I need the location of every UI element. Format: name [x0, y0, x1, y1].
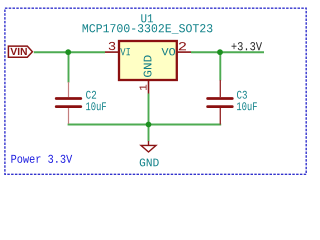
wire bottom rail: [68, 124, 222, 126]
C2 value 10uF: [86, 102, 106, 110]
C3 reference text: [237, 91, 247, 99]
capacitor C3 plates: [208, 99, 233, 107]
wire C2 branch vertical: [68, 52, 70, 82]
wire pin 2 to +3.3V: [191, 51, 264, 53]
wire IC GND pin to rail: [148, 94, 150, 125]
capacitor C2 bottom pin: [68, 108, 70, 124]
junction at GND rail: [146, 122, 152, 128]
U1 value MCP1700-3302E_SOT23: [83, 24, 213, 33]
pin 1 (GND) stub: [148, 81, 150, 94]
U1 reference designator: [141, 14, 153, 22]
C2 reference text: [86, 91, 96, 99]
GND net name text: [140, 158, 159, 166]
wire C3 branch vertical: [219, 52, 221, 80]
local label +3.3V: [232, 42, 263, 50]
pin name VI: [120, 48, 130, 55]
capacitor C2 top pin: [68, 82, 70, 97]
capacitor C3 bottom pin: [219, 108, 221, 125]
global label VIN text: [10, 48, 26, 55]
wire VIN to pin 3: [34, 51, 105, 53]
pin name GND (rotated): [144, 55, 152, 77]
GND symbol triangle: [141, 145, 156, 152]
pin name VO: [162, 48, 176, 55]
junction at VIN/C2: [65, 49, 71, 55]
regulator U1 body: [119, 41, 177, 80]
pin 2 (VO) stub: [177, 51, 192, 53]
sheet note Power 3.3V: [11, 155, 72, 163]
C3 value 10uF: [237, 102, 257, 110]
pin number 1 (rotated): [140, 85, 147, 90]
pin number 3: [109, 42, 116, 50]
junction at VO/C3: [217, 49, 223, 55]
pin 3 (VI) stub: [105, 51, 118, 53]
wire rail to GND symbol: [148, 125, 150, 142]
sheet boundary (blue dashed rectangle): [5, 8, 306, 174]
pin number 2: [179, 42, 186, 50]
capacitor C2 plates: [56, 99, 81, 107]
GND symbol stub: [148, 141, 150, 145]
global label VIN shape: [8, 46, 32, 57]
capacitor C3 top pin: [219, 80, 221, 97]
